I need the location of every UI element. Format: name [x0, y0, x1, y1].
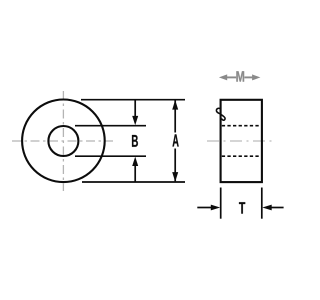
dimension A line upper [172, 100, 178, 133]
break squiggle on left edge [216, 108, 225, 120]
hidden hole line top [222, 125, 261, 127]
dimension A line lower [172, 149, 178, 182]
dimension M right arrow (gray) [244, 74, 260, 80]
dimension B lower arrow [132, 157, 138, 182]
extension line A bottom [82, 181, 185, 183]
side view rectangle [221, 100, 262, 182]
hidden hole line bottom [222, 155, 261, 157]
extension line T right [261, 188, 263, 219]
label T [239, 202, 245, 213]
dimension B upper arrow [132, 100, 138, 126]
dimension T right arrow [262, 205, 283, 211]
toroid outer circle [22, 100, 105, 183]
toroid inner hole circle [48, 126, 78, 156]
extension line B bottom [75, 155, 146, 157]
dimension M left arrow (gray) [219, 74, 236, 80]
label B [132, 135, 138, 147]
label A [173, 134, 179, 146]
dimension T left arrow [197, 205, 220, 211]
extension line B top [75, 125, 146, 127]
extension line T left [220, 188, 222, 219]
extension line A top [81, 99, 185, 101]
front view horizontal centerline [12, 140, 113, 142]
label M (gray) [236, 71, 244, 81]
side view centerline [207, 140, 273, 142]
front view vertical centerline [62, 91, 64, 191]
